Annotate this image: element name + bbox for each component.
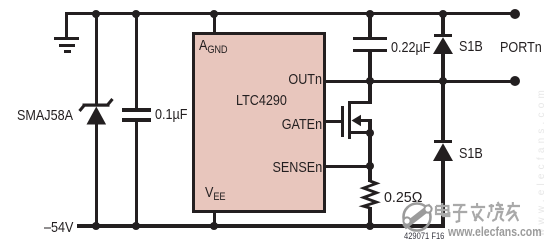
- svg-text:www.elecfans.com: www.elecfans.com: [536, 86, 544, 237]
